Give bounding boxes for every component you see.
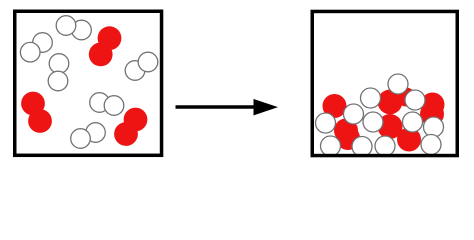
white molecule WM2 (upper left) (20, 33, 52, 62)
red particle RR2 (378, 90, 403, 115)
white molecule WM6 (bottom left) (71, 123, 106, 149)
white particle RW3 (405, 90, 425, 110)
red particle RR7 (378, 114, 403, 139)
white particle RW12 (421, 135, 441, 155)
red molecule RM2 (left) (21, 92, 52, 133)
red particle RR2b (wedge filler) (397, 88, 416, 107)
white particle RW10 (352, 137, 372, 157)
arrow shaft (176, 105, 257, 108)
red particle RR5 (334, 119, 358, 143)
white particle RW1 (388, 74, 408, 94)
red particle RR8 (397, 128, 421, 152)
red particle RR4 (420, 102, 444, 126)
white particle RW11 (375, 136, 395, 156)
red particles (behind) (323, 88, 445, 152)
white molecule WM1 (top center) (56, 16, 91, 40)
white particle RW8 (424, 117, 444, 137)
white molecule WM3 (center, vertical) (48, 54, 69, 91)
red particle RR6 (336, 126, 360, 150)
red particle RR3 (421, 93, 445, 117)
white particle RW4 (344, 104, 364, 124)
arrow head (254, 99, 279, 116)
red molecule RM3 (bottom right) (114, 108, 147, 146)
white particle RW7 (403, 112, 423, 132)
left box frame (15, 11, 162, 155)
white particle RW6 (363, 112, 383, 132)
red molecule RM1 (top center) (89, 26, 122, 66)
red particle RR1 (323, 94, 347, 118)
white particle RW5 (316, 113, 336, 133)
white particles (front) (316, 74, 444, 157)
white molecule WM5 (bottom center) (90, 93, 124, 116)
right box frame (312, 11, 457, 155)
white particle RW2 (361, 88, 381, 108)
white particle RW9 (321, 136, 341, 156)
white molecule WM4 (right middle) (125, 52, 158, 80)
